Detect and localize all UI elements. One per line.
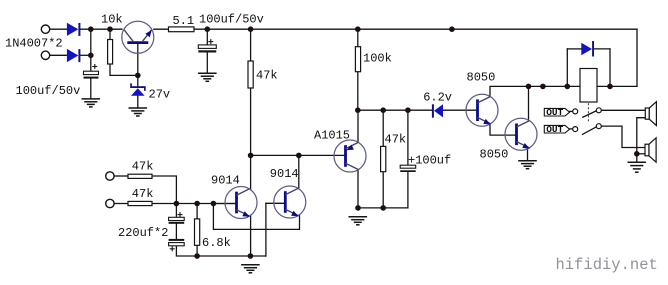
wire: 100uf bottom lead — [407, 172, 409, 208]
ground (input stage) — [241, 265, 260, 273]
wire: 47k (driver) top lead — [382, 110, 384, 146]
resistor R 47k input ch1 — [128, 174, 152, 178]
wire: 8050 no.2 emitter to ground — [527, 149, 529, 161]
svg-text:OUT: OUT — [546, 124, 563, 135]
transistor Q5 8050 — [505, 118, 537, 150]
node: summing at 6.8k — [194, 201, 200, 207]
wire: switch 1 to top speaker — [601, 109, 645, 111]
wire: 9014 no.2 base to bottom line — [265, 203, 267, 256]
input terminal 2 — [41, 51, 49, 59]
wire: 100uf top lead — [407, 110, 409, 165]
input terminal 3 — [106, 172, 114, 180]
wire: 6.8k bottom lead — [196, 245, 198, 256]
node: rail at filter branch — [88, 26, 94, 32]
relay flyback diode — [581, 41, 594, 57]
node: rail spare dot — [449, 26, 455, 32]
svg-text:47k: 47k — [132, 187, 154, 201]
OUT flag 1 — [544, 107, 569, 118]
node: bottom 47k — [380, 205, 386, 211]
speaker 2 (bottom) — [645, 138, 656, 162]
speaker 1 (top) — [645, 102, 656, 126]
wire: top speaker return — [637, 118, 646, 154]
svg-text:100k: 100k — [363, 51, 392, 65]
wire: 100k top lead — [357, 29, 359, 47]
wire: relay diode left lead — [567, 48, 581, 50]
wire: 220uf top lead — [175, 204, 177, 218]
wire: bottom node line to 100uf — [358, 207, 408, 209]
switch contact circles row 1 — [573, 109, 578, 114]
ground (A1015 stage) — [349, 217, 368, 225]
ground (speakers) — [628, 162, 647, 172]
wire: 9014 no.1 base lead — [213, 203, 236, 205]
wire: 47k ch1 to summing node — [152, 176, 176, 204]
node: relay line diode left — [565, 84, 571, 90]
OUT flag 2 — [544, 124, 569, 135]
switch contact circles row 2 — [573, 127, 578, 132]
ground (8050 emitter) — [518, 161, 537, 169]
resistor R 5.1 (horizontal) — [169, 27, 195, 32]
wire: A1015 collector lead — [357, 170, 359, 208]
transistor Q4 8050 — [466, 94, 498, 126]
resistor R 47k feedback (vertical at x=250) — [248, 61, 253, 88]
resistor R 47k driver stage — [381, 146, 386, 171]
wire: input terminal 2 to D2 — [50, 54, 67, 56]
input terminal 4 — [106, 199, 114, 207]
wire: D2 to filter cap branch — [80, 54, 90, 56]
node: driver line 47k — [380, 107, 386, 113]
resistor R 47k input ch2 — [128, 201, 152, 205]
resistor R 6.8k — [195, 219, 200, 245]
svg-text:6.8k: 6.8k — [202, 236, 231, 250]
svg-text:9014: 9014 — [270, 167, 299, 181]
diode D2 1N4007 — [67, 49, 81, 62]
svg-text:A1015: A1015 — [314, 129, 350, 143]
wire: 220uf bottom to ground line — [176, 246, 266, 256]
wire: 9014 no.1 collector lead — [250, 155, 252, 189]
node: D2 join — [88, 53, 94, 59]
node: rail at C2 — [205, 26, 211, 32]
node: relay line Q5 — [526, 84, 532, 90]
wire: 6.8k top lead — [196, 204, 198, 219]
resistor R 100k — [355, 47, 360, 72]
wire: 47k (driver) bottom lead — [382, 172, 384, 208]
wire: node line to 6.2v diode — [358, 109, 432, 111]
svg-text:27v: 27v — [149, 88, 171, 102]
transistor Q3 A1015 (PNP) — [334, 140, 366, 172]
svg-text:47k: 47k — [132, 159, 154, 173]
svg-text:1N4007*2: 1N4007*2 — [5, 37, 63, 51]
node: rail at 100k — [355, 26, 361, 32]
svg-text:10k: 10k — [101, 13, 123, 27]
node: bottom line 6.8k — [194, 253, 200, 259]
wire: 9014 no.2 emitter return path — [213, 204, 299, 230]
wire: 10k top lead — [109, 29, 111, 39]
wire: input terminal 4 to 47k — [115, 203, 129, 205]
wire: 100k bottom lead — [357, 72, 359, 111]
wire: 47k (feedback) top lead — [250, 29, 252, 61]
wire: A1015 emitter lead — [357, 110, 359, 142]
wire: switch 1 blade — [583, 111, 597, 117]
wire: C2 bottom lead to ground — [206, 53, 208, 74]
wire: C2 top lead — [206, 29, 208, 45]
wire: bottom speaker return stub — [637, 153, 645, 155]
wire: 6.2v diode to 8050 no.1 base — [443, 109, 478, 111]
node: relay line diode right — [607, 84, 613, 90]
node: bottom line ground — [248, 253, 254, 259]
wire: top rail from R 5.1 to right corner — [194, 28, 637, 30]
svg-text:5.1: 5.1 — [173, 14, 195, 28]
zener diode 27v — [130, 83, 146, 95]
ground (filter cap) — [82, 99, 101, 107]
ground (C2) — [198, 73, 217, 81]
wire: right rail down to relay line — [636, 29, 638, 86]
wire: collector node line to A1015 base — [251, 154, 346, 156]
wire: 8050 no.2 collector lead — [528, 86, 530, 120]
wire: summing node line — [152, 203, 237, 205]
wire: 8050 no.1 collector to relay line — [490, 86, 637, 96]
transistor Q1 9014 — [225, 187, 257, 219]
relay coil — [580, 69, 597, 103]
wire: OUT 2 lead — [570, 128, 573, 130]
wire: relay diode right leg — [609, 49, 611, 87]
wire: between 220uf caps — [175, 224, 177, 239]
svg-text:47k: 47k — [256, 69, 278, 83]
svg-text:6.2v: 6.2v — [423, 91, 452, 105]
diode D1 1N4007 — [67, 23, 81, 36]
wire: switch 2 blade — [583, 127, 597, 134]
node: collector line right — [296, 153, 302, 159]
wire: 8050 no.1 emitter to 8050 no.2 base — [490, 124, 517, 135]
capacitor C1 100uf/50v (left) — [84, 64, 99, 79]
wire: relay diode right lead — [594, 48, 610, 50]
wire: speaker ground lead — [636, 154, 638, 163]
wire: 47k (feedback) bottom lead to node line — [250, 88, 252, 155]
node: rail at 47k — [248, 26, 254, 32]
node: collector line left — [248, 153, 254, 159]
svg-text:9014: 9014 — [211, 174, 240, 188]
svg-text:8050: 8050 — [480, 148, 509, 162]
node: driver line 100uf — [405, 107, 411, 113]
node: relay line mid — [540, 84, 546, 90]
wire: filter cap to ground — [90, 79, 92, 99]
capacitor C2 100uf/50v (top) — [198, 39, 216, 52]
svg-text:OUT: OUT — [546, 107, 563, 118]
ground (zener) — [129, 108, 148, 116]
node: pass transistor base — [135, 73, 141, 79]
relay mechanical link (dashed) — [587, 103, 589, 122]
svg-text:hifidiy.net: hifidiy.net — [556, 256, 658, 274]
wire: zener to ground — [137, 96, 139, 108]
svg-text:100uf/50v: 100uf/50v — [199, 12, 264, 26]
wire: OUT 1 lead — [570, 110, 573, 112]
svg-text:220uf*2: 220uf*2 — [118, 226, 168, 240]
wire: switch 2 to bottom speaker — [601, 126, 645, 147]
wire: input terminal 3 to 47k — [115, 175, 129, 177]
node: A1015 collector ground — [355, 205, 361, 211]
svg-text:100uf/50v: 100uf/50v — [16, 84, 81, 98]
capacitor C5 220uf lower — [169, 239, 185, 251]
input terminal 1 — [41, 25, 49, 33]
node: summing at base — [211, 201, 217, 207]
wire: 9014 no.1 emitter lead — [250, 215, 252, 256]
wire: 9014 no.2 base lead — [266, 202, 285, 204]
wire: top rail from pass transistor to R 5.1 — [154, 28, 169, 30]
transistor Q2 9014 — [274, 186, 306, 218]
node: speaker ground — [634, 151, 640, 157]
wire: filter cap branch vertical — [90, 29, 92, 71]
svg-text:+100uf: +100uf — [408, 154, 451, 168]
svg-text:8050: 8050 — [467, 71, 496, 85]
diode 6.2v — [432, 104, 443, 118]
wire: 10k bottom lead to base node — [110, 64, 138, 75]
capacitor C3 100uf (driver) — [400, 165, 416, 172]
pass transistor (top-left, unlabeled) — [122, 21, 154, 53]
wire: top rail from D1 to pass transistor — [80, 28, 122, 30]
wire: input terminal 1 to D1 — [50, 28, 67, 30]
wire: relay diode left leg — [566, 49, 568, 87]
resistor R 10k (vertical) — [108, 40, 113, 65]
node: driver line 100k — [355, 107, 361, 113]
node: summing at 220uf — [174, 201, 180, 207]
wire: pass transistor base lead — [137, 44, 139, 86]
node: rail at 10k — [107, 26, 113, 32]
capacitor C4 220uf upper — [169, 212, 185, 224]
wire: 9014 no.2 collector lead — [298, 155, 300, 188]
svg-text:47k: 47k — [385, 133, 407, 147]
